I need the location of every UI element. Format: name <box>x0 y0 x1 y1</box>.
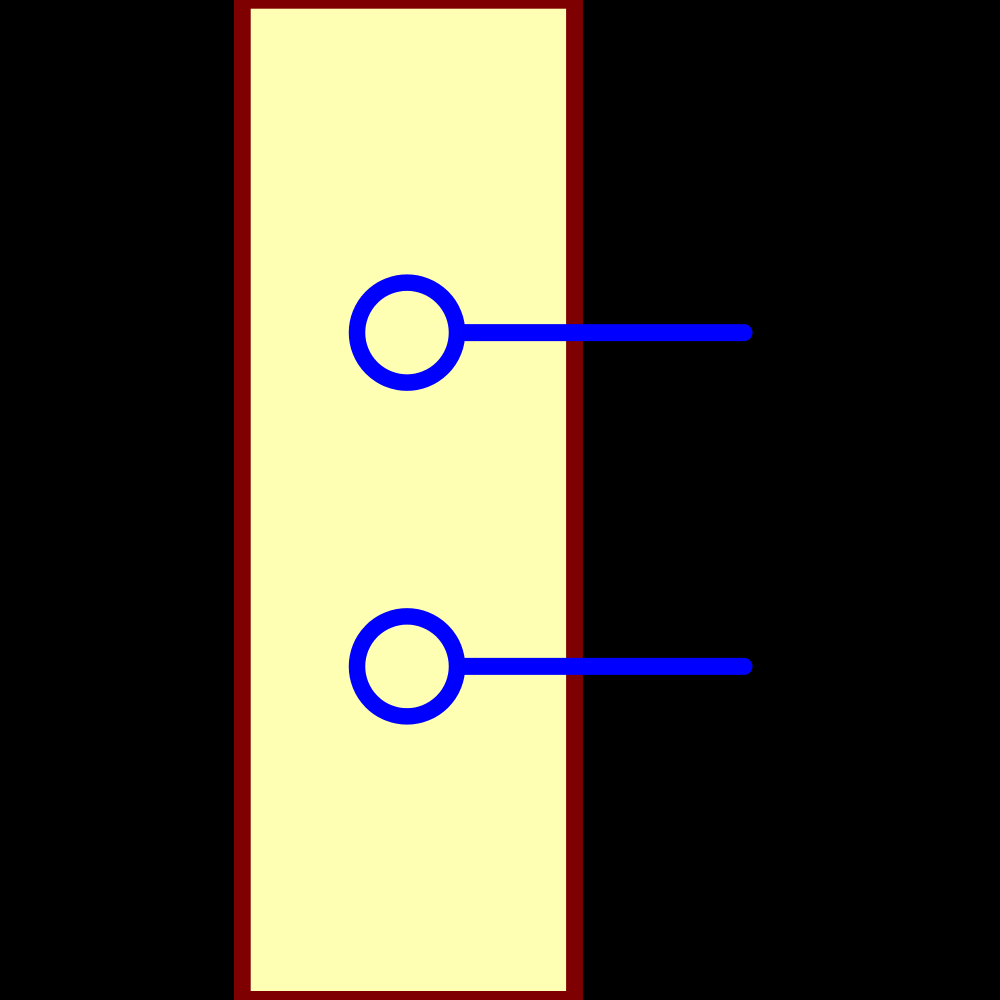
pin 1 lead <box>464 324 744 341</box>
connector body J1 <box>242 0 574 999</box>
pin 2 circle <box>357 616 457 716</box>
pin 2 lead <box>464 658 744 675</box>
pin 1 circle <box>357 283 457 383</box>
